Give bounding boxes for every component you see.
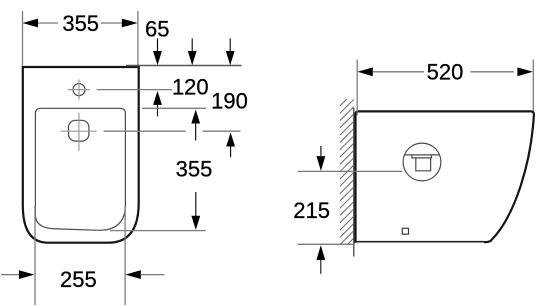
drain chord line bbox=[405, 154, 440, 156]
tap hole leader line bbox=[97, 89, 172, 91]
svg-text:190: 190 bbox=[211, 89, 248, 114]
side view body outline bbox=[356, 111, 534, 242]
drain leader line bbox=[298, 170, 403, 172]
front view: outer body outline bbox=[23, 67, 139, 243]
dimension 520: extension lines bbox=[356, 60, 358, 116]
dimension 255: extension lines bbox=[34, 206, 36, 305]
svg-text:65: 65 bbox=[145, 17, 169, 42]
floor line bbox=[298, 243, 355, 245]
120 down arrow bbox=[191, 38, 193, 51]
tap hole circle bbox=[73, 84, 85, 96]
120/355 shared up arrow bbox=[191, 110, 200, 124]
355 vertical down arrow bbox=[195, 192, 197, 217]
svg-text:355: 355 bbox=[62, 11, 99, 36]
dimension 255: right arrow bbox=[125, 270, 141, 279]
65 up arrow bbox=[153, 91, 162, 105]
dimension 355 top: dimension line bbox=[38, 22, 58, 24]
190 down arrow bbox=[229, 38, 231, 51]
drain circle (side view) bbox=[403, 143, 441, 181]
svg-text:355: 355 bbox=[176, 156, 213, 181]
dimension 520: right arrowhead bbox=[517, 67, 532, 76]
svg-text:255: 255 bbox=[60, 267, 97, 292]
dimension 520: left arrowhead bbox=[357, 67, 372, 76]
bowl bottom reference line bbox=[110, 230, 206, 232]
dimension 355 top: left arrowhead bbox=[23, 19, 39, 28]
drain fitting symbol bbox=[412, 155, 432, 171]
drain squircle bbox=[69, 120, 89, 141]
side view body bottom edge bbox=[355, 241, 484, 243]
bowl rim dimension line y108 bbox=[142, 107, 206, 109]
tap hole crosshair bbox=[68, 89, 90, 91]
top edge extension line to the right bbox=[126, 65, 242, 67]
small square detail bbox=[402, 228, 408, 234]
dimension 215: up arrow bbox=[316, 245, 325, 260]
front view: inner bowl outline bbox=[35, 108, 125, 230]
dimension 355 top: right arrowhead bbox=[122, 19, 138, 28]
svg-text:215: 215 bbox=[293, 198, 330, 223]
190 up arrow bbox=[226, 133, 235, 147]
svg-text:120: 120 bbox=[172, 74, 209, 99]
drain squircle vertical crosshair bbox=[78, 113, 80, 151]
svg-text:520: 520 bbox=[427, 60, 464, 85]
dimension 215: down arrow bbox=[320, 146, 322, 156]
drain level reference line y131 bbox=[60, 130, 96, 132]
dimension 355 top: extension lines bbox=[22, 11, 24, 66]
wall line (side view) bbox=[353, 108, 355, 257]
65 down arrow bbox=[157, 38, 159, 51]
dimension 255: left arrow bbox=[1, 274, 20, 276]
dimension 520: dimension line bbox=[373, 71, 424, 73]
